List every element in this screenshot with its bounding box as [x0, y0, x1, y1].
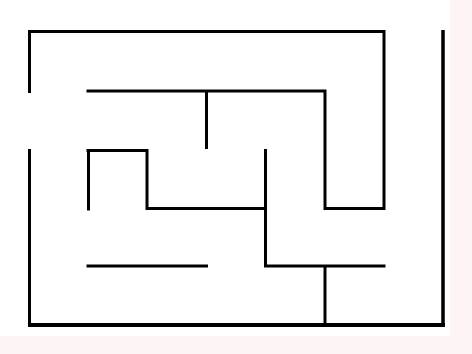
wire left wall upper segment: [28, 30, 31, 93]
wire right wall: [441, 30, 445, 327]
wire bottom wall: [28, 323, 445, 327]
wire row4 horizontal c1-c3: [87, 265, 209, 268]
wire row4 horizontal c4-c6: [264, 265, 386, 268]
wire row1 horizontal c1-c5: [87, 90, 327, 93]
wire vertical c3 r1-r2: [205, 90, 208, 150]
wire vertical c5 r4-r5: [324, 265, 327, 327]
wire vertical c1 r2-r3: [87, 149, 90, 211]
wire row3 horizontal c2-c4: [146, 207, 268, 210]
wire vertical c2 r2-r3: [146, 149, 149, 210]
wire vertical c6 r0-r3: [383, 30, 386, 210]
wire row2 horizontal c1-c2: [87, 149, 149, 152]
wire top wall: [28, 30, 386, 33]
wire vertical c4 r2-r4: [264, 149, 267, 268]
wire vertical c5 r1-r3: [324, 90, 327, 211]
wire left wall lower segment: [28, 149, 31, 327]
wire row3 horizontal c5-c6: [324, 207, 386, 210]
